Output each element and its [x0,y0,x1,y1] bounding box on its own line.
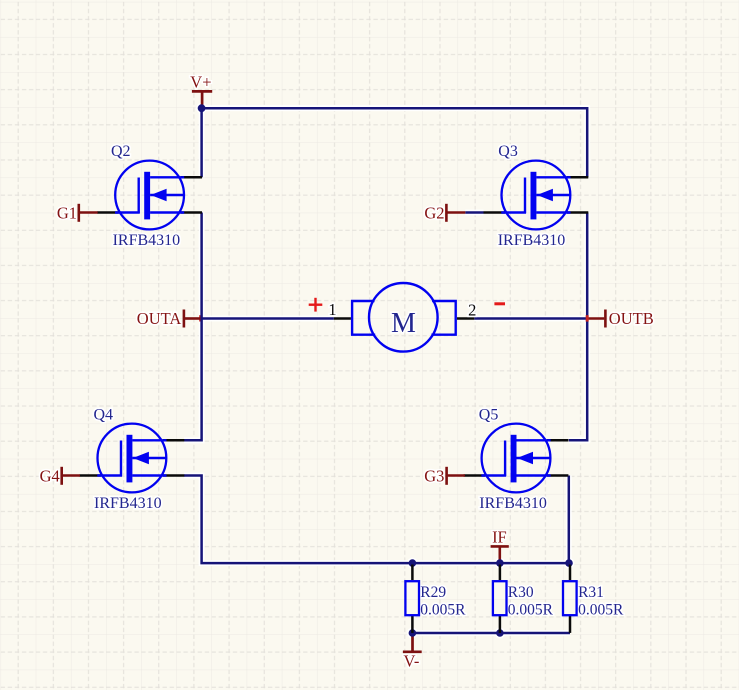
transistor Q5 [464,406,569,512]
wire Q2 source down through OUTA to Q4 drain [184,213,202,441]
svg-text:Q5: Q5 [479,406,499,423]
svg-text:0.005R: 0.005R [578,601,624,618]
transistor Q2 [97,143,202,249]
power port V- [403,636,422,671]
resistor R31 [563,565,624,633]
node rail junction R29 top [409,559,417,567]
junction marker OUTA [199,315,202,321]
svg-text:G2: G2 [424,203,444,222]
node rail junction Q5/R31 top [565,559,573,567]
svg-text:IRFB4310: IRFB4310 [94,495,162,512]
svg-text:G3: G3 [424,466,444,485]
port G2 [424,203,465,222]
wire motor pin 2 to OUTB node [474,317,587,320]
svg-text:R31: R31 [578,584,604,601]
power port V+ [190,73,212,107]
svg-text:G1: G1 [57,203,77,222]
port G3 [424,466,465,485]
transistor Q4 [79,406,184,512]
svg-text:IF: IF [492,528,507,547]
wire Q3 source down through OUTB to Q5 drain [569,213,587,441]
port OUTA [137,309,201,328]
polarity plus mark [309,298,323,312]
svg-text:V+: V+ [190,73,211,92]
wire G2 port stub [465,211,483,214]
port OUTB [586,309,654,328]
node V+ junction [198,104,206,112]
svg-text:0.005R: 0.005R [420,601,466,618]
svg-text:Q2: Q2 [111,143,131,160]
resistor R30 [493,565,554,633]
wire V+ node to top-right corner then down to Q3 drain [202,108,588,177]
transistor Q3 [484,143,589,249]
svg-text:R30: R30 [508,584,534,601]
port G1 [57,203,98,222]
svg-text:0.005R: 0.005R [508,601,554,618]
wire bottom rail [413,632,571,635]
svg-text:G4: G4 [40,466,60,485]
svg-text:IRFB4310: IRFB4310 [498,232,566,249]
port G4 [40,466,80,485]
node rail junction R30/IF top [496,559,504,567]
svg-text:V-: V- [404,652,420,671]
motor M [334,283,475,352]
svg-text:IRFB4310: IRFB4310 [113,232,181,249]
svg-text:M: M [391,308,416,339]
svg-text:R29: R29 [420,584,446,601]
wire Q5 source down to sense rail [568,476,571,564]
svg-text:OUTA: OUTA [137,309,182,328]
svg-text:1: 1 [328,300,336,319]
port IF [491,528,509,561]
svg-text:2: 2 [468,301,476,320]
wire OUTA to motor pin 1 [202,317,334,320]
resistor R29 [405,565,466,633]
svg-text:IRFB4310: IRFB4310 [479,495,547,512]
node rail junction R30 bottom [496,629,504,637]
svg-text:Q3: Q3 [498,143,518,160]
wire white halo underlay [184,103,587,639]
wire Q4 source down and right along sense rail [184,476,569,564]
svg-text:OUTB: OUTB [609,309,654,328]
polarity minus mark [494,302,505,305]
wire V+ node down to Q2 drain [200,108,203,177]
node rail junction R29/V- bottom [409,629,417,637]
svg-text:Q4: Q4 [94,406,114,423]
